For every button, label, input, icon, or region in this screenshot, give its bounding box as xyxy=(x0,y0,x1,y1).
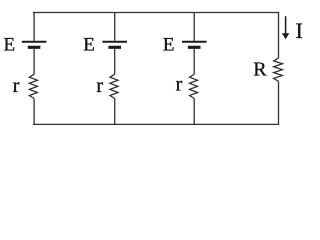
svg-text:E: E xyxy=(163,35,175,56)
resistor r1 (zigzag) xyxy=(29,74,37,98)
wire bottom rail xyxy=(33,123,279,125)
svg-text:R: R xyxy=(253,59,267,81)
battery E1 (cell, branch 1) xyxy=(22,42,47,48)
wire resistor r3 to bottom rail xyxy=(193,99,195,126)
wire battery E3 to resistor r3 xyxy=(193,49,195,74)
resistor r2 (zigzag) xyxy=(110,74,118,98)
svg-text:r: r xyxy=(176,74,183,96)
svg-text:r: r xyxy=(13,75,20,97)
svg-text:E: E xyxy=(4,35,16,56)
battery E3 (cell, branch 3) xyxy=(182,42,207,48)
wire top rail xyxy=(33,12,279,14)
wire right edge top (corner to resistor R) xyxy=(278,12,280,58)
battery E2 (cell, branch 2) xyxy=(102,42,127,48)
resistor R (zigzag, load) xyxy=(274,58,283,81)
svg-text:I: I xyxy=(296,18,303,43)
wire battery E1 to resistor r1 xyxy=(33,49,35,74)
svg-text:E: E xyxy=(83,35,95,56)
current arrow I (downward, outside right edge) xyxy=(282,16,289,39)
wire resistor r1 to bottom rail xyxy=(33,99,35,126)
wire branch3 top rail to battery E3 xyxy=(193,13,195,42)
wire battery E2 to resistor r2 xyxy=(114,49,116,74)
wire branch2 top rail to battery E2 xyxy=(114,13,116,42)
wire branch1 top (left edge, corner to battery E1) xyxy=(33,12,35,42)
wire resistor r2 to bottom rail xyxy=(114,99,116,126)
resistor r3 (zigzag) xyxy=(190,74,198,98)
wire resistor R to bottom-right corner xyxy=(278,81,280,125)
svg-text:r: r xyxy=(96,75,103,97)
